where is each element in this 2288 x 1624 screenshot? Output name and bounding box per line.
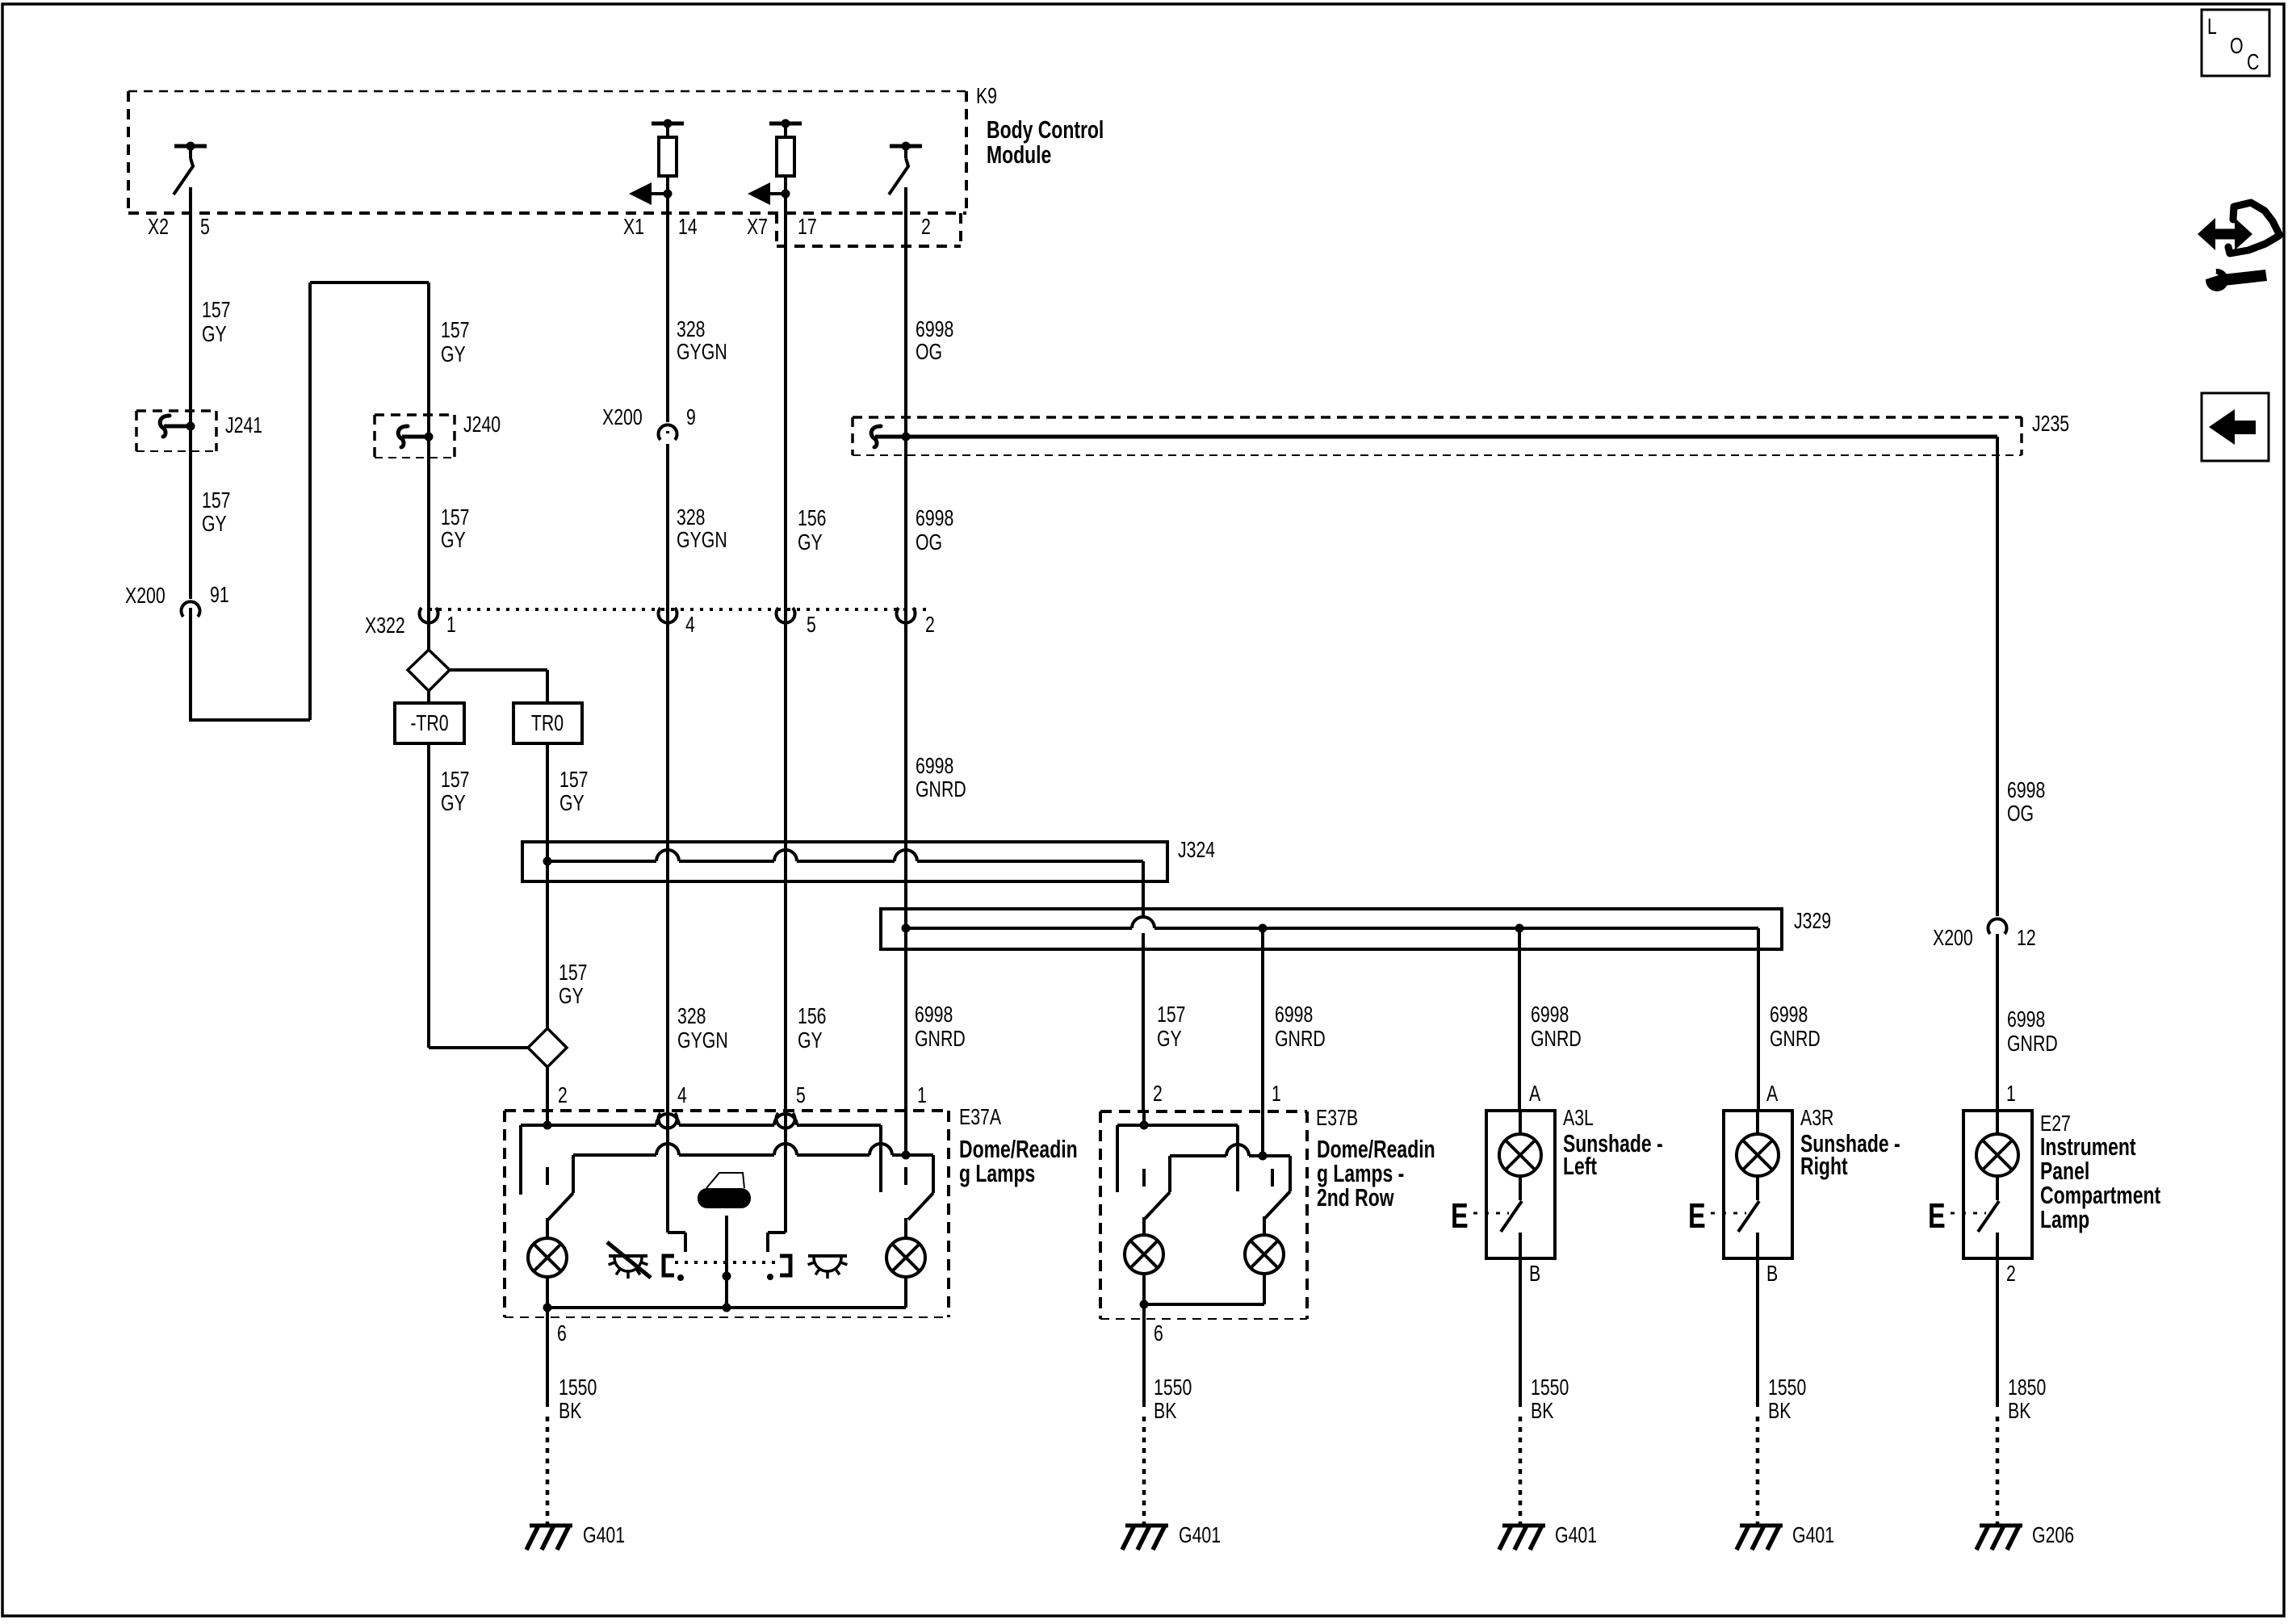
wire 6998 GNRD J329 to A3L xyxy=(1518,928,1521,1111)
resistor in K9 pin X1-14 xyxy=(652,119,684,195)
wire 1550 BK from E37A xyxy=(547,1308,597,1423)
E37A labels xyxy=(959,1104,1078,1187)
svg-text:4: 4 xyxy=(685,612,695,637)
svg-text:GY: GY xyxy=(441,790,466,815)
E37B left lamp xyxy=(1125,1235,1163,1274)
signal direction arrow pin X7-17 xyxy=(748,182,790,205)
svg-text:Right: Right xyxy=(1800,1152,1848,1180)
svg-text:B: B xyxy=(1529,1261,1540,1286)
E27 switch xyxy=(1978,1176,1999,1258)
E37B bottom bus to pin 6 xyxy=(1140,1274,1265,1309)
E37A terminal cups pins 4 and 5 xyxy=(659,1113,795,1128)
svg-text:GY: GY xyxy=(1157,1026,1182,1051)
svg-text:157: 157 xyxy=(1157,1002,1186,1027)
E37B pin1 wire stub into box xyxy=(1261,1111,1264,1156)
E37A center switch pin4 contact xyxy=(668,1111,685,1252)
label 156 GY lower2 xyxy=(798,1003,827,1053)
svg-text:K9: K9 xyxy=(976,83,997,108)
svg-text:157: 157 xyxy=(441,767,470,792)
label 6998 GNRD to E37B xyxy=(1275,1002,1326,1051)
A3R bulb xyxy=(1737,1134,1779,1176)
svg-text:A3L: A3L xyxy=(1563,1105,1594,1130)
E37B right lamp xyxy=(1245,1235,1284,1274)
svg-text:Left: Left xyxy=(1563,1152,1597,1180)
E37B left lamp switch blade xyxy=(1144,1192,1170,1236)
wire 6998 OG below J235 xyxy=(904,437,907,1111)
svg-text:6998: 6998 xyxy=(1770,1002,1808,1027)
K9 pin labels xyxy=(148,214,931,239)
svg-text:TR0: TR0 xyxy=(531,710,564,735)
E27 labels xyxy=(2040,1111,2160,1233)
signal direction arrow pin X1-14 xyxy=(629,182,673,205)
E37A left lamp switch blade xyxy=(547,1193,573,1238)
svg-text:G401: G401 xyxy=(1179,1522,1221,1547)
svg-text:5: 5 xyxy=(807,612,816,637)
svg-text:9: 9 xyxy=(686,404,696,429)
E37A center switch movable contact dotted xyxy=(675,1262,777,1281)
svg-text:6998: 6998 xyxy=(916,316,953,341)
svg-text:1: 1 xyxy=(917,1082,927,1107)
label 157 GY below J241 xyxy=(202,488,231,536)
svg-text:6998: 6998 xyxy=(1531,1002,1569,1027)
wire 157 GY from J324 to E37B pin 2 xyxy=(1142,881,1145,1111)
dotted ground lead E37A xyxy=(546,1417,550,1524)
label 157 GY below J240 xyxy=(441,504,470,552)
E37A switch contact dashes xyxy=(547,1167,906,1185)
label 156 GY xyxy=(798,505,827,555)
E37A left lamp xyxy=(528,1238,567,1277)
E37A center switch stem xyxy=(723,1216,731,1308)
svg-text:2: 2 xyxy=(2006,1261,2016,1286)
svg-text:6: 6 xyxy=(557,1321,567,1346)
svg-text:GNRD: GNRD xyxy=(2007,1031,2058,1056)
wire jog bottom left to riser xyxy=(191,283,429,720)
svg-text:GY: GY xyxy=(441,341,466,366)
svg-text:X322: X322 xyxy=(365,613,405,638)
svg-text:157: 157 xyxy=(441,504,470,529)
svg-text:5: 5 xyxy=(796,1082,806,1107)
svg-text:GNRD: GNRD xyxy=(1531,1026,1582,1051)
label 6998 GNRD above J324 xyxy=(916,753,966,802)
svg-text:J240: J240 xyxy=(463,412,501,437)
A3R switch xyxy=(1738,1176,1759,1258)
svg-text:E: E xyxy=(1928,1196,1946,1236)
label 6998 OG right xyxy=(2007,777,2045,826)
E37A right lamp switch blade xyxy=(906,1193,933,1238)
svg-text:1550: 1550 xyxy=(1768,1375,1806,1400)
wire 156 GY from K9 X7-17 to E37A xyxy=(784,194,787,1111)
svg-text:X200: X200 xyxy=(1933,925,1973,950)
svg-text:J241: J241 xyxy=(225,412,262,437)
E37A center switch left bracket xyxy=(664,1256,674,1275)
svg-text:12: 12 xyxy=(2017,925,2036,950)
connector X322 dotted row xyxy=(420,608,929,623)
svg-text:14: 14 xyxy=(678,214,698,239)
ground G401 for A3L xyxy=(1499,1522,1597,1550)
label 328 GYGN lower xyxy=(677,504,727,552)
svg-text:1: 1 xyxy=(446,612,456,637)
svg-text:91: 91 xyxy=(210,582,229,607)
label 157 GY under TR0 xyxy=(559,767,589,815)
dotted ground lead A3L xyxy=(1519,1417,1523,1524)
wire 157 GY riser down through J240 xyxy=(427,283,430,650)
wire 6998 OG from J235 to X200-12 xyxy=(1996,437,1999,923)
E37B pin labels xyxy=(1153,1081,1281,1106)
wire 1550 from A3L xyxy=(1520,1258,1569,1423)
node diamond2 xyxy=(528,1028,567,1067)
E37B labels xyxy=(1316,1105,1435,1212)
svg-text:6998: 6998 xyxy=(2007,1007,2045,1032)
A3L switch xyxy=(1501,1176,1522,1258)
svg-text:6998: 6998 xyxy=(2007,777,2045,802)
svg-text:OG: OG xyxy=(2007,801,2034,826)
svg-text:328: 328 xyxy=(677,1003,706,1028)
module K9 Body Control Module dashed box xyxy=(128,91,966,213)
svg-text:J329: J329 xyxy=(1794,908,1831,933)
svg-text:GYGN: GYGN xyxy=(677,339,727,364)
svg-text:A: A xyxy=(1766,1081,1778,1106)
lamp A3R box xyxy=(1724,1111,1792,1258)
svg-text:J235: J235 xyxy=(2032,411,2069,436)
svg-text:6: 6 xyxy=(1154,1321,1163,1346)
svg-text:GYGN: GYGN xyxy=(677,1028,728,1053)
svg-text:6998: 6998 xyxy=(1275,1002,1313,1027)
svg-text:GYGN: GYGN xyxy=(677,527,727,552)
dotted ground lead A3R xyxy=(1756,1417,1760,1524)
svg-text:2: 2 xyxy=(925,612,935,637)
ground G401 for E37B xyxy=(1122,1522,1221,1550)
svg-text:157: 157 xyxy=(559,767,589,792)
svg-text:O: O xyxy=(2230,33,2244,58)
svg-text:GY: GY xyxy=(559,983,584,1008)
label 157 GY above J240 xyxy=(441,317,470,366)
connector X7 sub box pins 17 and 2 xyxy=(777,213,961,246)
svg-text:X7: X7 xyxy=(747,214,768,239)
wire 6998 GNRD J329 to E37B pin 1 xyxy=(1261,928,1264,1157)
svg-text:5: 5 xyxy=(200,214,210,239)
svg-text:BK: BK xyxy=(2008,1398,2031,1423)
splice pack J324 xyxy=(522,842,1167,881)
E37B internal bus B xyxy=(1170,1145,1290,1192)
wire -TR0 branch down and over to diamond2 xyxy=(429,691,528,1048)
dotted ground lead E27 xyxy=(1996,1417,2000,1524)
E37A pin labels xyxy=(558,1082,927,1107)
svg-text:157: 157 xyxy=(202,297,231,322)
svg-text:GY: GY xyxy=(202,511,227,536)
A3L bulb xyxy=(1499,1134,1541,1176)
svg-text:G401: G401 xyxy=(583,1522,625,1547)
svg-text:OG: OG xyxy=(916,529,942,555)
option box -TR0 xyxy=(395,703,464,743)
svg-text:17: 17 xyxy=(798,214,817,239)
svg-text:2: 2 xyxy=(558,1082,568,1107)
wire 328 GYGN from K9 X1-14 xyxy=(666,194,669,433)
E37A internal bus B (pin 1 side) xyxy=(573,1144,933,1193)
svg-text:BK: BK xyxy=(559,1398,582,1423)
svg-text:X200: X200 xyxy=(125,583,166,608)
E37A dome icon car xyxy=(698,1173,751,1208)
svg-text:156: 156 xyxy=(798,505,827,530)
svg-text:157: 157 xyxy=(202,488,231,513)
splice pack J329 xyxy=(881,909,1782,949)
svg-text:L: L xyxy=(2207,14,2217,39)
label 157 GY above diamond2 xyxy=(559,960,588,1008)
svg-text:GNRD: GNRD xyxy=(916,776,966,802)
svg-text:6998: 6998 xyxy=(915,1002,953,1027)
svg-text:GNRD: GNRD xyxy=(1770,1026,1821,1051)
svg-text:1: 1 xyxy=(1272,1081,1281,1106)
svg-text:A: A xyxy=(1529,1081,1540,1106)
option box TR0 xyxy=(513,703,582,743)
svg-text:B: B xyxy=(1766,1261,1778,1286)
svg-text:2: 2 xyxy=(1153,1081,1163,1106)
wire 1550 from A3R xyxy=(1758,1258,1806,1423)
lamp E27 box xyxy=(1963,1111,2032,1258)
wire 157 GY from K9 X2-5 down to J241 and X200-91 xyxy=(189,187,192,722)
svg-text:1: 1 xyxy=(2006,1081,2016,1106)
label 6998 GNRD to A3L xyxy=(1531,1002,1582,1051)
svg-text:GY: GY xyxy=(441,527,466,552)
A3L feed wire into box xyxy=(1519,1111,1522,1135)
E37B internal bus A xyxy=(1117,1121,1238,1193)
svg-text:GY: GY xyxy=(202,321,227,346)
svg-text:E: E xyxy=(1688,1196,1706,1236)
svg-text:X1: X1 xyxy=(623,214,644,239)
label 6998 OG below J235 xyxy=(916,505,953,555)
E27 E actuator xyxy=(1928,1196,1986,1236)
svg-text:GY: GY xyxy=(798,529,823,555)
label 328 GYGN lower2 xyxy=(677,1003,728,1053)
lamp module E37A dashed box xyxy=(505,1111,949,1317)
label 6998 GNRD to A3R xyxy=(1770,1002,1821,1051)
svg-text:328: 328 xyxy=(677,316,706,341)
E37B right lamp switch blade xyxy=(1264,1191,1290,1236)
A3L labels xyxy=(1563,1105,1663,1180)
inline connector X200 pin 91 xyxy=(125,582,229,617)
svg-text:1850: 1850 xyxy=(2008,1375,2046,1400)
E27 bulb xyxy=(1976,1134,2018,1176)
svg-text:157: 157 xyxy=(559,960,588,985)
wire to TR0 branch xyxy=(450,670,547,703)
wire 6998 GNRD J329 to A3R xyxy=(1757,949,1760,1111)
K9 label xyxy=(976,83,1104,169)
svg-text:Body Control: Body Control xyxy=(987,115,1104,144)
splice J235 xyxy=(853,417,2022,455)
switch in K9 pin X7-2 xyxy=(889,142,922,195)
svg-text:GNRD: GNRD xyxy=(1275,1026,1326,1051)
A3R labels xyxy=(1800,1105,1900,1180)
label 6998 OG upper xyxy=(916,316,953,364)
resistor in K9 pin X7-17 xyxy=(769,119,802,195)
svg-text:1550: 1550 xyxy=(559,1375,597,1400)
ground G401 for A3R xyxy=(1737,1522,1834,1550)
svg-text:E37A: E37A xyxy=(959,1104,1001,1129)
E37A internal bus A (pin 2 side) xyxy=(521,1114,881,1195)
A3R E actuator xyxy=(1688,1196,1746,1236)
svg-text:J324: J324 xyxy=(1178,837,1215,862)
E37A center switch pin5 contact xyxy=(768,1111,786,1252)
svg-text:BK: BK xyxy=(1154,1398,1177,1423)
svg-text:X200: X200 xyxy=(602,404,643,429)
node diamond below X322-1 xyxy=(408,650,450,691)
LOC legend box top right xyxy=(2202,10,2269,76)
A3R feed wire into box xyxy=(1756,1111,1759,1135)
E27 feed wire into box xyxy=(1996,1111,1999,1135)
svg-text:2nd Row: 2nd Row xyxy=(1317,1183,1394,1212)
svg-text:328: 328 xyxy=(677,504,706,529)
svg-text:Lamp: Lamp xyxy=(2040,1205,2089,1233)
svg-text:1550: 1550 xyxy=(1154,1375,1192,1400)
wire 6998 OG from K9 X7-2 xyxy=(904,187,907,437)
svg-text:G401: G401 xyxy=(1555,1522,1597,1547)
svg-text:BK: BK xyxy=(1768,1398,1791,1423)
svg-text:1550: 1550 xyxy=(1531,1375,1569,1400)
label 157 GY under -TR0 xyxy=(441,767,470,815)
label 328 GYGN upper xyxy=(677,316,727,364)
ground G401 for E37A xyxy=(526,1522,625,1550)
splice J240 xyxy=(375,415,455,458)
svg-text:OG: OG xyxy=(916,339,942,364)
lamp A3L box xyxy=(1486,1111,1555,1258)
svg-text:4: 4 xyxy=(677,1082,687,1107)
E37A bottom bus to pin 6 xyxy=(543,1277,907,1312)
svg-text:GNRD: GNRD xyxy=(915,1026,966,1051)
E37A center switch right bracket xyxy=(780,1256,790,1275)
wire 328 GYGN from X200-9 to X322 xyxy=(666,444,669,1111)
wire 1550 BK from E37B xyxy=(1144,1304,1192,1423)
svg-text:GY: GY xyxy=(798,1028,823,1053)
label 6998 GNRD to E37A pin1 xyxy=(915,1002,966,1051)
E37A lamp on icon xyxy=(808,1256,848,1279)
E37A right lamp xyxy=(886,1238,925,1277)
svg-text:E: E xyxy=(1451,1196,1469,1236)
related-information wrench icon xyxy=(2198,203,2279,291)
inline connector X200 pin 12 xyxy=(1933,916,2036,950)
label 157 GY upper left xyxy=(202,297,231,346)
svg-text:BK: BK xyxy=(1531,1398,1554,1423)
wire diamond2 to E37A pin2 xyxy=(546,1067,549,1125)
svg-text:E37B: E37B xyxy=(1316,1105,1358,1130)
svg-text:Module: Module xyxy=(987,140,1051,169)
A3L E actuator xyxy=(1451,1196,1509,1236)
switch in K9 pin X2-5 xyxy=(174,142,207,195)
E37A lamp off icon xyxy=(607,1242,651,1279)
svg-text:2: 2 xyxy=(921,214,931,239)
svg-text:157: 157 xyxy=(441,317,470,342)
label 6998 GNRD right xyxy=(2007,1007,2058,1056)
svg-text:G401: G401 xyxy=(1792,1522,1834,1547)
ground G206 for E27 xyxy=(1976,1522,2074,1550)
svg-text:X2: X2 xyxy=(148,214,169,239)
inline connector X200 pin 9 xyxy=(602,404,696,440)
svg-text:A3R: A3R xyxy=(1800,1105,1833,1130)
wire 6998 GNRD X200-12 to E27 xyxy=(1996,934,1999,1111)
svg-text:6998: 6998 xyxy=(916,505,953,530)
svg-text:G206: G206 xyxy=(2032,1522,2074,1547)
svg-text:156: 156 xyxy=(798,1003,827,1028)
svg-text:g Lamps: g Lamps xyxy=(959,1159,1035,1187)
back arrow icon box xyxy=(2202,393,2269,461)
svg-text:-TR0: -TR0 xyxy=(410,710,448,735)
wire TR0 branch down to J324 xyxy=(546,743,549,1028)
E37A pin1 wire stub into box xyxy=(904,1111,907,1155)
dotted ground lead E37B xyxy=(1142,1417,1146,1524)
svg-text:6998: 6998 xyxy=(916,753,953,778)
lamp module E37B dashed box xyxy=(1100,1111,1307,1319)
svg-text:GY: GY xyxy=(559,790,585,815)
X322 labels xyxy=(365,612,935,638)
splice J241 xyxy=(136,411,216,451)
label 157 GY to E37B xyxy=(1157,1002,1186,1051)
wire 1850 from E27 xyxy=(1997,1258,2046,1423)
E37B switch contact dashes xyxy=(1144,1169,1272,1187)
E37B pin2 wire into box xyxy=(1142,1111,1146,1125)
svg-text:C: C xyxy=(2247,49,2259,74)
